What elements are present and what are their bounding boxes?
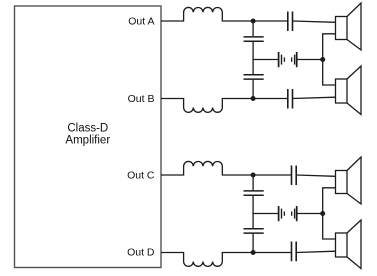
svg-text:Amplifier: Amplifier xyxy=(65,134,110,146)
svg-text:Class-D: Class-D xyxy=(67,122,108,134)
svg-text:Out B: Out B xyxy=(128,93,155,105)
svg-text:Out C: Out C xyxy=(127,170,155,182)
svg-text:Out D: Out D xyxy=(127,247,155,259)
svg-text:Out A: Out A xyxy=(128,16,154,28)
